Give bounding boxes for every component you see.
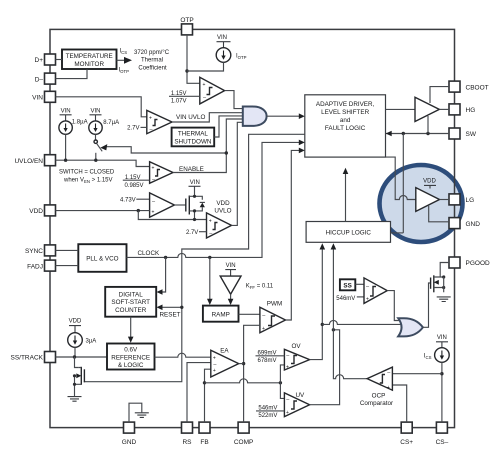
SS box bbox=[340, 279, 355, 290]
node clock/DSS bbox=[164, 256, 167, 259]
svg-text:COUNTER: COUNTER bbox=[115, 307, 147, 314]
node FB at OV/UV bbox=[279, 381, 282, 384]
op-amp OCP comparator (points left) bbox=[367, 367, 392, 391]
wire OV to OR gate (hop) bbox=[322, 320, 400, 324]
wire enable output riser to AND gate bbox=[173, 119, 243, 173]
pin CS- bbox=[436, 422, 449, 446]
node ICS/OCP bbox=[440, 372, 443, 375]
svg-text:VIN: VIN bbox=[61, 109, 71, 115]
svg-text:D–: D– bbox=[35, 76, 44, 83]
digital soft-start counter box bbox=[105, 287, 156, 317]
wire adaptive to HG driver bbox=[386, 108, 416, 110]
wire D- to temp monitor bbox=[56, 69, 88, 78]
wire clock net (with hop) to adaptive driver bbox=[127, 142, 300, 257]
wire 2.7V to VDD UVLO bbox=[199, 231, 207, 233]
svg-text:VDD: VDD bbox=[29, 208, 43, 215]
svg-text:VIN UVLO: VIN UVLO bbox=[176, 114, 205, 121]
wire FB to OV/UV (hop over COMP) bbox=[205, 379, 281, 383]
wire CS+ to OCP + input bbox=[392, 385, 406, 422]
svg-text:Comparator: Comparator bbox=[360, 400, 393, 407]
svg-text:KFF = 0.11: KFF = 0.11 bbox=[246, 284, 274, 291]
pin RS bbox=[182, 422, 193, 446]
wire thermal shutdown to AND gate bbox=[214, 116, 243, 137]
wire CBOOT to driver bbox=[430, 87, 449, 103]
svg-text:+: + bbox=[152, 210, 155, 216]
switch (EN) bbox=[94, 140, 102, 160]
wire FB to OV + bbox=[280, 365, 284, 383]
svg-text:+: + bbox=[387, 385, 390, 391]
node reset tap bbox=[180, 306, 183, 309]
wire reset into counter bbox=[162, 306, 182, 308]
wire SS box to comparator bbox=[355, 283, 364, 285]
node enable/switch tap bbox=[225, 151, 228, 154]
wire AND output to adaptive driver bbox=[267, 115, 300, 117]
wire fault/reset net to adaptive driver bbox=[84, 134, 305, 381]
svg-text:Coefficient: Coefficient bbox=[138, 65, 167, 71]
wire threshold bar to UV bbox=[256, 410, 284, 412]
svg-text:RS: RS bbox=[182, 439, 192, 446]
svg-text:& LOGIC: & LOGIC bbox=[118, 362, 144, 369]
svg-text:522mV: 522mV bbox=[258, 413, 277, 419]
wire hiccup to adaptive driver arrow bbox=[345, 173, 347, 222]
pin D- bbox=[35, 73, 56, 84]
svg-text:UVLO: UVLO bbox=[214, 208, 231, 215]
svg-text:OV: OV bbox=[292, 343, 302, 350]
svg-text:D+: D+ bbox=[35, 57, 44, 64]
svg-text:+: + bbox=[149, 116, 152, 122]
ground (GND pin) bbox=[129, 403, 149, 422]
current source 8.7uA bbox=[89, 109, 119, 140]
wire EA tip to COMP node bbox=[239, 363, 244, 365]
pin OTP bbox=[180, 17, 193, 35]
svg-text:Thermal: Thermal bbox=[141, 58, 163, 64]
svg-text:PLL & VCO: PLL & VCO bbox=[86, 256, 118, 263]
svg-text:546mV: 546mV bbox=[336, 296, 355, 302]
svg-text:VIN: VIN bbox=[217, 35, 227, 41]
current source 3uA bbox=[68, 326, 97, 357]
op-amp 4.73V comparator bbox=[150, 193, 175, 217]
svg-text:OCP: OCP bbox=[372, 393, 386, 400]
svg-text:ICS: ICS bbox=[424, 354, 432, 361]
pin VDD bbox=[29, 205, 55, 216]
svg-text:PWM: PWM bbox=[267, 300, 282, 307]
svg-text:HG: HG bbox=[466, 107, 476, 114]
node UV/OCP junction bbox=[332, 328, 335, 331]
wire OTP pin down to comparator bbox=[187, 35, 200, 83]
wire SW riser to hiccup link bbox=[402, 134, 404, 233]
pin GND (bottom) bbox=[122, 422, 137, 446]
pin LG bbox=[449, 194, 474, 205]
wire junction riser to hiccup bbox=[332, 249, 334, 330]
pll & vco box bbox=[78, 244, 126, 272]
svg-text:1.8µA: 1.8µA bbox=[72, 120, 88, 126]
node SW/driver bbox=[426, 132, 429, 135]
svg-text:SS/TRACK: SS/TRACK bbox=[10, 355, 43, 362]
svg-text:VIN: VIN bbox=[437, 335, 447, 341]
wire reference to EA (with hop) bbox=[155, 353, 211, 357]
svg-text:REFERENCE: REFERENCE bbox=[111, 354, 150, 361]
wire LG driver return to GND pin bbox=[429, 206, 449, 222]
pin VIN bbox=[32, 91, 55, 102]
pin CS+ bbox=[400, 422, 413, 446]
wire VDD pin to comparator + bbox=[56, 210, 150, 212]
svg-text:CS+: CS+ bbox=[400, 439, 413, 446]
svg-text:VIN: VIN bbox=[32, 95, 43, 102]
node OV/OR tap bbox=[321, 323, 324, 326]
svg-text:+: + bbox=[286, 365, 289, 371]
svg-text:UVLO/EN: UVLO/EN bbox=[14, 158, 43, 165]
node clock/RAMP bbox=[208, 256, 211, 259]
highlight circle (blue) bbox=[380, 165, 463, 242]
hiccup logic box bbox=[306, 222, 390, 243]
svg-text:TEMPERATURE: TEMPERATURE bbox=[66, 53, 113, 60]
wire UV output to junction bbox=[310, 330, 340, 405]
op-amp SS comparator bbox=[364, 278, 387, 304]
wire UVLO/EN to enable comparator bbox=[56, 160, 150, 166]
svg-text:8.7µA: 8.7µA bbox=[103, 120, 119, 126]
pin FB bbox=[199, 422, 210, 446]
wire threshold bar to enable comparator bbox=[123, 179, 150, 181]
svg-text:ADAPTIVE DRIVER,: ADAPTIVE DRIVER, bbox=[316, 101, 375, 108]
svg-text:3µA: 3µA bbox=[86, 339, 97, 345]
svg-text:CLOCK: CLOCK bbox=[138, 250, 160, 257]
pin HG bbox=[449, 104, 475, 115]
svg-text:SS: SS bbox=[343, 283, 351, 290]
op-amp VIN UVLO comparator bbox=[147, 110, 172, 133]
wire PWM output riser to adaptive driver bbox=[286, 150, 300, 320]
wire KFF to ramp bbox=[230, 294, 232, 299]
svg-text:when VEN > 1.15V: when VEN > 1.15V bbox=[63, 178, 113, 185]
op-amp PWM comparator bbox=[260, 307, 286, 333]
wire OV output riser to hiccup bbox=[310, 249, 323, 360]
svg-text:+: + bbox=[209, 218, 212, 224]
svg-text:FADJ: FADJ bbox=[27, 263, 43, 270]
transistor PGOOD FET bbox=[431, 275, 446, 292]
op-amp EA error amplifier bbox=[211, 347, 239, 377]
svg-text:DIGITAL: DIGITAL bbox=[119, 291, 144, 298]
svg-text:GND: GND bbox=[466, 221, 481, 228]
pin SS/TRACK bbox=[10, 352, 55, 363]
feed-forward attenuator KFF bbox=[220, 270, 241, 295]
svg-text:COMP: COMP bbox=[234, 439, 254, 446]
svg-text:+: + bbox=[213, 368, 216, 374]
svg-text:VIN: VIN bbox=[190, 180, 200, 186]
svg-text:VIN: VIN bbox=[226, 263, 236, 269]
svg-text:VDD: VDD bbox=[69, 319, 82, 325]
svg-text:GND: GND bbox=[122, 439, 137, 446]
current source 1.8uA bbox=[59, 109, 88, 161]
svg-text:UV: UV bbox=[296, 392, 306, 399]
pin FADJ bbox=[27, 260, 55, 271]
wire ICS to OCP - input bbox=[392, 373, 442, 375]
wire IOTP to OTP net bbox=[187, 62, 224, 71]
wire SW net bbox=[386, 133, 450, 135]
svg-text:SYNC: SYNC bbox=[25, 248, 43, 255]
wire VDD UVLO output riser to AND gate bbox=[232, 122, 243, 225]
pin CBOOT bbox=[449, 81, 489, 92]
ramp box bbox=[203, 306, 239, 322]
svg-text:VDD: VDD bbox=[216, 200, 230, 207]
wire SS/TRACK to reference box bbox=[56, 356, 108, 358]
op-amp OTP comparator bbox=[200, 77, 225, 104]
svg-text:+: + bbox=[262, 326, 265, 332]
pin D+ bbox=[35, 54, 56, 65]
wire FB riser to EA bbox=[205, 369, 211, 422]
AND gate U-fault bbox=[243, 107, 267, 126]
wire FB to UV - bbox=[280, 383, 284, 399]
op-amp OV comparator bbox=[284, 349, 309, 370]
svg-text:SW: SW bbox=[466, 131, 477, 138]
svg-text:4.73V: 4.73V bbox=[120, 197, 136, 203]
svg-text:RESET: RESET bbox=[160, 312, 181, 319]
0.6V reference & logic box bbox=[107, 344, 155, 370]
wire hiccup to SW net bbox=[391, 232, 404, 234]
svg-text:VDD: VDD bbox=[423, 178, 436, 184]
IC outer border bbox=[50, 29, 455, 427]
wire threshold bar to OTP comparator bbox=[169, 95, 200, 97]
node UVLO/EN 2 bbox=[94, 159, 97, 162]
svg-text:0.985V: 0.985V bbox=[124, 183, 143, 189]
wire ramp output to PWM bbox=[239, 313, 260, 315]
svg-text:PGOOD: PGOOD bbox=[466, 260, 491, 267]
wire 546mV to comparator bbox=[357, 296, 364, 298]
svg-text:RAMP: RAMP bbox=[212, 312, 230, 319]
wire SS comparator to OR gate bbox=[387, 291, 400, 321]
op-amp ENABLE comparator bbox=[150, 162, 173, 184]
wire COMP net to PWM input bbox=[244, 325, 260, 422]
wire 4.73V to comparator bbox=[136, 198, 149, 200]
wire clock to ramp bbox=[209, 257, 211, 299]
svg-text:MONITOR: MONITOR bbox=[74, 61, 104, 68]
wire 2.7V to VIN UVLO bbox=[141, 126, 147, 128]
temp monitor output arrow bbox=[117, 59, 125, 61]
svg-text:and: and bbox=[340, 117, 351, 124]
node FB bbox=[203, 381, 206, 384]
svg-text:+: + bbox=[366, 297, 369, 303]
svg-text:FAULT LOGIC: FAULT LOGIC bbox=[325, 125, 366, 132]
svg-text:+: + bbox=[286, 410, 289, 416]
wire adaptive to LG driver (hop) bbox=[386, 157, 416, 199]
wire LG driver to LG pin bbox=[440, 199, 450, 201]
svg-text:3720 ppm/°C: 3720 ppm/°C bbox=[134, 50, 170, 56]
wire switch control from enable bbox=[107, 147, 227, 153]
ground (SS FET) bbox=[68, 397, 82, 402]
OR gate PGOOD bbox=[398, 318, 423, 336]
wire OCP output to junction (hop) bbox=[333, 330, 367, 379]
wire VIN pin to VIN UVLO bbox=[56, 97, 147, 117]
op-amp HG driver bbox=[415, 97, 439, 121]
svg-text:2.7V: 2.7V bbox=[186, 230, 198, 236]
svg-text:+: + bbox=[203, 82, 206, 88]
node SW/hiccup bbox=[402, 132, 405, 135]
svg-text:SOFT-START: SOFT-START bbox=[111, 299, 150, 306]
node SS/TRACK bbox=[73, 355, 76, 358]
pin SW bbox=[449, 128, 477, 139]
wire threshold bar to OV bbox=[256, 355, 285, 357]
node VDD line bbox=[137, 209, 140, 212]
svg-text:HICCUP LOGIC: HICCUP LOGIC bbox=[326, 230, 372, 237]
wire OTP comparator output to AND gate bbox=[225, 91, 243, 109]
svg-text:SWITCH = CLOSED: SWITCH = CLOSED bbox=[59, 169, 115, 175]
wire SYNC to PLL bbox=[56, 249, 79, 251]
pin SYNC bbox=[25, 245, 56, 256]
node OTP net bbox=[185, 69, 188, 72]
svg-text:LG: LG bbox=[466, 197, 475, 204]
svg-text:CBOOT: CBOOT bbox=[466, 84, 489, 91]
wire VDD branch to VDD UVLO bbox=[138, 211, 206, 220]
svg-text:EA: EA bbox=[220, 347, 229, 354]
adaptive driver box bbox=[305, 95, 386, 157]
svg-text:IOTP: IOTP bbox=[236, 54, 247, 61]
wire counter to reference box bbox=[130, 317, 132, 338]
svg-text:2.7V: 2.7V bbox=[127, 126, 139, 132]
op-amp VDD UVLO comparator bbox=[207, 213, 232, 238]
svg-text:LEVEL SHIFTER: LEVEL SHIFTER bbox=[321, 109, 370, 116]
wire PGOOD FET to PGOOD pin bbox=[440, 263, 449, 278]
current source ICS bbox=[424, 342, 449, 422]
node UVLO/EN 1 bbox=[64, 159, 67, 162]
transistor pass FET (VDD LDO) bbox=[186, 180, 205, 221]
svg-text:678mV: 678mV bbox=[257, 358, 276, 364]
svg-text:IOTP: IOTP bbox=[119, 67, 130, 74]
wire VIN UVLO output to AND gate bbox=[172, 113, 243, 122]
op-amp UV comparator bbox=[284, 393, 309, 417]
svg-text:0.6V: 0.6V bbox=[124, 347, 138, 354]
pin UVLO/EN bbox=[14, 155, 55, 166]
svg-text:VIN: VIN bbox=[90, 109, 100, 115]
wire RS to EA bbox=[187, 363, 211, 423]
wire OR gate to PGOOD FET gate bbox=[423, 283, 431, 327]
ground (PGOOD FET) bbox=[437, 297, 451, 302]
svg-text:+: + bbox=[152, 166, 155, 172]
node EA output bbox=[242, 362, 245, 365]
wire D+ to temp monitor bbox=[56, 59, 63, 61]
wire SW to HG driver return bbox=[427, 116, 429, 134]
wire 4.73V comp output to pass FET gate bbox=[174, 204, 185, 206]
svg-text:ICS: ICS bbox=[120, 49, 128, 56]
op-amp LG driver bbox=[416, 185, 440, 211]
thermal shutdown box bbox=[172, 128, 215, 147]
temperature monitor box bbox=[62, 50, 117, 70]
pin PGOOD bbox=[449, 257, 490, 268]
svg-text:1.07V: 1.07V bbox=[171, 99, 187, 105]
svg-text:OTP: OTP bbox=[180, 17, 193, 24]
transistor SS discharge FET bbox=[73, 357, 85, 397]
svg-text:FB: FB bbox=[200, 439, 208, 446]
pin COMP bbox=[234, 422, 254, 446]
pin GND (right) bbox=[449, 218, 480, 229]
svg-text:THERMAL: THERMAL bbox=[178, 131, 209, 138]
wire HG driver to HG pin bbox=[439, 108, 449, 110]
wire FADJ to PLL bbox=[56, 265, 79, 267]
current source IOTP bbox=[216, 35, 246, 62]
svg-text:SHUTDOWN: SHUTDOWN bbox=[174, 138, 212, 145]
wire clock to soft-start counter bbox=[162, 257, 166, 292]
svg-text:CS–: CS– bbox=[436, 439, 449, 446]
